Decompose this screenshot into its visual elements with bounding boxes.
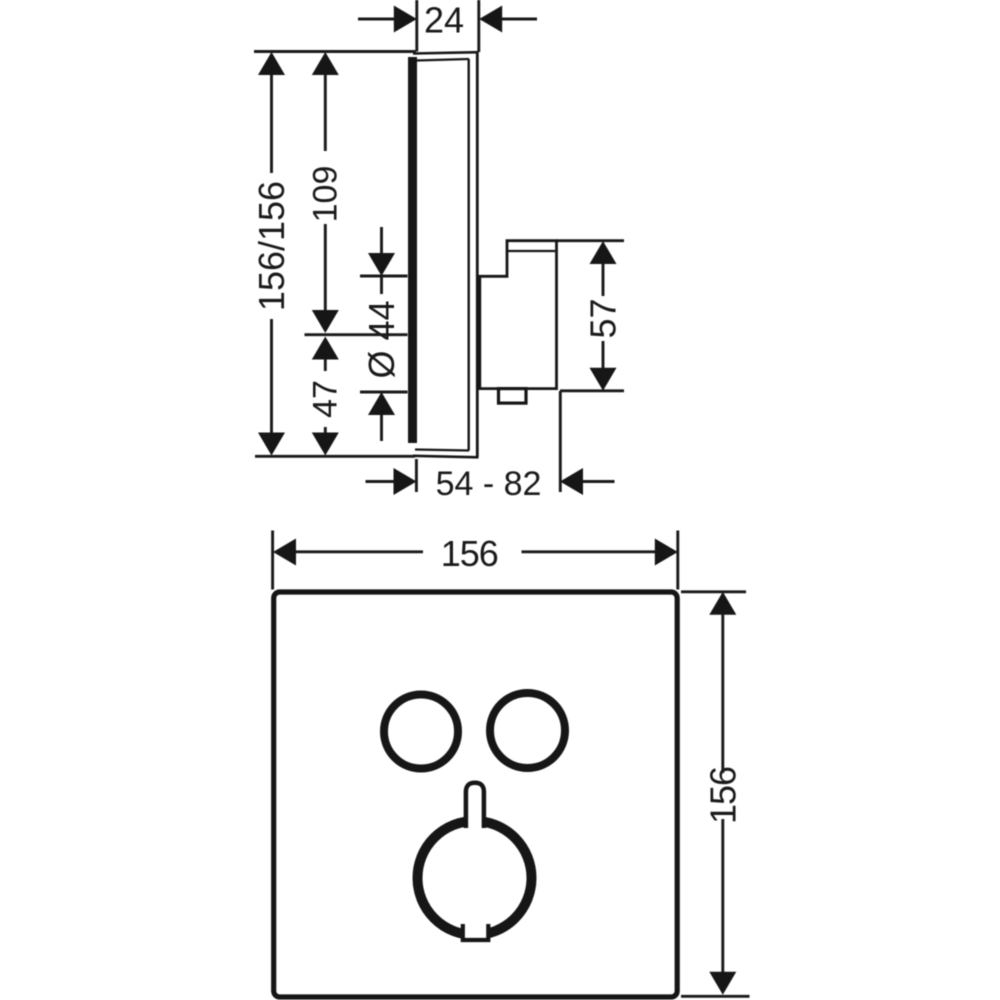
svg-text:54 - 82: 54 - 82: [436, 465, 542, 503]
svg-text:47: 47: [306, 380, 344, 418]
svg-text:156/156: 156/156: [251, 181, 292, 311]
svg-text:109: 109: [306, 166, 344, 223]
svg-text:Ø 44: Ø 44: [361, 300, 402, 378]
svg-text:156: 156: [702, 767, 743, 824]
svg-text:156: 156: [441, 533, 498, 574]
svg-text:57: 57: [583, 298, 624, 338]
svg-text:24: 24: [424, 0, 464, 41]
